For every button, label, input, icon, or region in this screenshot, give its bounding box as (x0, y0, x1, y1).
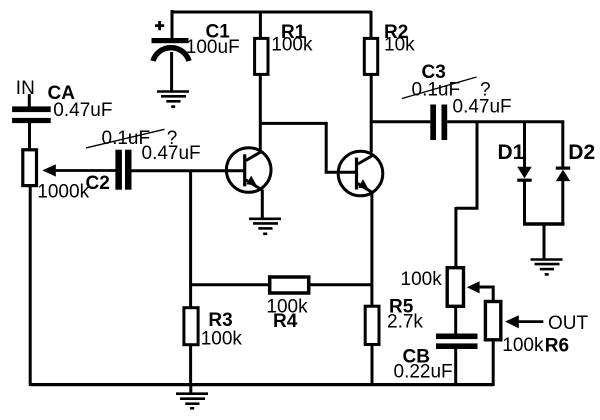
wire D2 bottom lead (561, 181, 564, 226)
svg-text:R4: R4 (273, 311, 298, 332)
capacitor CA (12, 106, 51, 123)
wire R1 top lead (259, 11, 262, 40)
wire D1 bottom lead (523, 182, 526, 226)
wire D2 top lead (561, 122, 564, 167)
bottom ground rail wire (30, 383, 493, 386)
potentiometer 1000k body (23, 150, 37, 186)
wire R2 bottom lead / Q2 collector (370, 74, 373, 152)
wire bottom ground stem (189, 385, 192, 394)
svg-text:R6: R6 (545, 336, 569, 357)
wire R5 bottom lead (371, 345, 374, 387)
svg-text:100k: 100k (401, 269, 443, 290)
strikethrough line C2 (86, 129, 165, 148)
svg-text:100uF: 100uF (186, 37, 240, 58)
wire R4 horizontal (191, 283, 372, 286)
svg-text:0.22uF: 0.22uF (394, 362, 453, 383)
wire pot bottom lead (454, 306, 457, 334)
strikethrough line C3 (402, 77, 477, 99)
wire interstage jog vertical (325, 123, 328, 172)
svg-text:0.47uF: 0.47uF (142, 143, 201, 164)
wire to Q2 base (325, 171, 357, 174)
svg-text:IN: IN (16, 78, 35, 99)
wire R3 top lead (189, 285, 192, 309)
svg-text:OUT: OUT (548, 313, 589, 334)
wire base junction drop (189, 171, 192, 285)
capacitor C2 (115, 150, 131, 190)
ground below diodes (531, 260, 563, 275)
wire diode bottom connector (523, 222, 565, 225)
wire C3 output (447, 120, 564, 123)
wire C3 input (371, 120, 430, 123)
wire interstage horizontal (260, 122, 327, 125)
pot 1000k wiper arrow (42, 164, 116, 176)
svg-text:100k: 100k (271, 35, 313, 56)
svg-text:100k: 100k (201, 329, 243, 350)
resistor R1 (255, 38, 268, 74)
wire R1 bottom lead / Q1 collector (259, 74, 262, 151)
potentiometer 100k body (447, 268, 463, 307)
wire C1 bottom lead (170, 52, 173, 92)
wire ground stem diodes (543, 224, 546, 260)
resistor R2 (364, 38, 377, 74)
OUT arrow (505, 315, 543, 328)
svg-text:100k: 100k (502, 335, 544, 356)
wire C2 to Q1 base (132, 169, 245, 172)
wire C1 top lead (171, 10, 174, 38)
wire Q1 emitter lead (261, 190, 264, 219)
capacitor C3 (430, 105, 447, 141)
resistor R5 (365, 306, 379, 344)
svg-text:D2: D2 (568, 141, 595, 164)
wire pot 1000k bottom lead (29, 185, 32, 386)
wire Q2 emitter lead (370, 193, 373, 307)
transistor Q1 (226, 148, 271, 193)
wire R2 top lead (370, 11, 373, 40)
resistor R4 (270, 277, 309, 293)
wire IN stem (28, 94, 31, 107)
wire R6 bottom lead (492, 340, 495, 386)
potentiometer R6 body (485, 302, 500, 340)
top supply rail wire (171, 11, 372, 14)
diode D2 (556, 167, 570, 182)
wire to pot top (454, 207, 457, 268)
wire R3 bottom lead (189, 345, 192, 386)
svg-text:0.47uF: 0.47uF (53, 100, 112, 121)
ground below C1 (157, 92, 189, 107)
svg-text:10k: 10k (384, 35, 415, 56)
svg-text:0.47uF: 0.47uF (453, 97, 512, 118)
svg-text:1000k: 1000k (37, 182, 89, 203)
svg-text:2.7k: 2.7k (387, 312, 423, 333)
wire D1 top lead (523, 122, 526, 167)
svg-text:D1: D1 (498, 141, 525, 164)
capacitor C1 (152, 21, 190, 61)
wire CB bottom lead (454, 349, 457, 386)
pot wiper arrow (467, 281, 493, 302)
wire CA to pot (28, 122, 31, 151)
resistor R3 (184, 308, 198, 345)
wire volume branch jog (456, 207, 479, 210)
transistor Q2 (338, 151, 383, 196)
svg-text:C2: C2 (86, 173, 110, 194)
diode D1 (517, 167, 531, 182)
ground below Q1 (249, 219, 281, 234)
wire volume branch vertical (476, 122, 479, 209)
ground bottom center (176, 394, 208, 409)
capacitor CB (436, 334, 478, 350)
